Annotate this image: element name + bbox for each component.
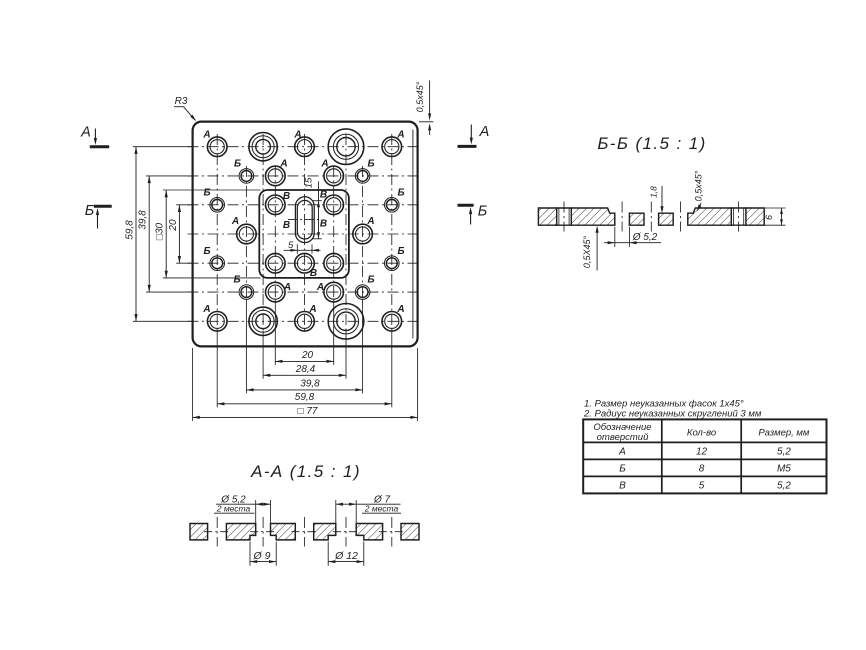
section А-А hole centerline x=217.2 bbox=[216, 517, 218, 547]
hole Б5 М5 bbox=[210, 256, 225, 271]
svg-text:0,5x45°: 0,5x45° bbox=[415, 81, 425, 112]
section Б-Б hole centerline x=738.6 bbox=[738, 202, 740, 232]
dimension Ф12 (А-А) bbox=[327, 542, 329, 566]
centerline column x=391.8 bbox=[391, 134, 393, 331]
svg-text:28,4: 28,4 bbox=[295, 364, 316, 375]
svg-text:А: А bbox=[308, 304, 316, 315]
hole Б2 М5 bbox=[355, 169, 370, 184]
svg-text:20: 20 bbox=[301, 350, 314, 361]
counterbored hole Ф7/Ф12 #2 bbox=[328, 304, 364, 340]
extension line plate right corner bbox=[417, 348, 419, 421]
svg-text:отверстий: отверстий bbox=[597, 432, 649, 443]
section Б-Б material chunk 1 bbox=[538, 208, 556, 225]
section А-А material chunk 1 bbox=[190, 524, 208, 540]
dimension Ф5,2 (Б-Б) bbox=[614, 227, 616, 247]
svg-text:Б: Б bbox=[203, 246, 210, 257]
svg-text:20: 20 bbox=[168, 219, 179, 232]
dimension 28,4 bottom bbox=[263, 374, 346, 376]
dimension квадрат 77 bottom bbox=[193, 416, 418, 418]
centerline row y=263.2 bbox=[188, 262, 422, 264]
leader 0,5X45&#176; bottom (Б-Б) bbox=[596, 228, 598, 270]
counterbored hole Ф5,2/Ф9 #2 bbox=[249, 307, 277, 335]
leader R3 corner radius bbox=[174, 106, 184, 108]
svg-text:1,8: 1,8 bbox=[649, 186, 659, 198]
section А-А material chunk 3 bbox=[271, 524, 296, 540]
section А-А material chunk 6 bbox=[401, 524, 419, 540]
svg-text:А-А (1.5 : 1): А-А (1.5 : 1) bbox=[250, 462, 361, 481]
section Б-Б hole centerline x=651.3 bbox=[650, 202, 652, 232]
svg-text:Б: Б bbox=[397, 188, 404, 199]
svg-text:Б: Б bbox=[234, 159, 241, 170]
dimension 39,8 bottom bbox=[246, 389, 362, 391]
centerline row y=321.3 bbox=[188, 320, 422, 322]
dimension Ф5,2 2 места (А-А) bbox=[255, 500, 257, 524]
hole Б1 М5 bbox=[239, 169, 254, 184]
svg-text:5: 5 bbox=[288, 240, 294, 251]
centerline row y=146.7 bbox=[188, 146, 422, 148]
svg-text:А: А bbox=[279, 159, 287, 170]
svg-text:59,8: 59,8 bbox=[125, 220, 136, 240]
svg-text:А: А bbox=[320, 159, 328, 170]
svg-text:В: В bbox=[283, 220, 290, 231]
dimension 20 bottom bbox=[275, 360, 333, 362]
svg-text:А: А bbox=[396, 130, 404, 141]
section А-А hole centerline x=391.8 bbox=[391, 517, 393, 547]
leader 0,5x45&#176; top (Б-Б) bbox=[698, 203, 701, 210]
section А-А material chunk 4 bbox=[314, 524, 336, 540]
svg-text:А: А bbox=[202, 130, 210, 141]
centerline column x=304.5 bbox=[304, 134, 306, 332]
section А-А hole centerline x=263.1 bbox=[262, 517, 264, 547]
dimension 15 slot length bbox=[313, 200, 322, 202]
hole В2 Ф5,2 bbox=[324, 195, 344, 215]
hole А3 Ф5,2 bbox=[382, 137, 402, 157]
section А-А hole centerline x=304.5 bbox=[304, 517, 306, 547]
svg-text:R3: R3 bbox=[175, 96, 188, 107]
svg-text:0,5x45°: 0,5x45° bbox=[694, 170, 704, 201]
section mark Б left bbox=[94, 205, 112, 208]
svg-text:2 места: 2 места bbox=[216, 503, 251, 513]
dimension квадрат 30 left bbox=[165, 190, 167, 278]
centerline column x=246.4 bbox=[245, 166, 247, 299]
svg-text:Размер, мм: Размер, мм bbox=[758, 428, 810, 439]
centerline column x=333.7 bbox=[333, 166, 335, 299]
dimension 39,8 left bbox=[148, 176, 150, 292]
svg-text:Б: Б bbox=[367, 159, 374, 170]
centerline column x=346.0 bbox=[345, 134, 347, 331]
section А-А hole centerline x=346.0 bbox=[345, 517, 347, 547]
hole Б6 М5 bbox=[385, 256, 400, 271]
dimension 5 slot width bbox=[296, 244, 298, 254]
hole А1 Ф5,2 bbox=[207, 137, 227, 157]
svg-text:5: 5 bbox=[699, 481, 705, 492]
svg-text:Б: Б bbox=[397, 246, 404, 257]
svg-text:А: А bbox=[366, 216, 374, 227]
hole Б7 М5 bbox=[239, 285, 254, 300]
svg-text:2 места: 2 места bbox=[364, 503, 399, 513]
slot 5x15 outer outline bbox=[295, 197, 314, 243]
svg-text:39,8: 39,8 bbox=[300, 378, 320, 389]
svg-text:39,8: 39,8 bbox=[138, 210, 149, 230]
svg-text:В: В bbox=[320, 219, 327, 230]
svg-text:В: В bbox=[320, 190, 327, 201]
hole А7 Ф5,2 bbox=[353, 224, 373, 244]
svg-text:12: 12 bbox=[696, 447, 708, 458]
svg-text:Ø 9: Ø 9 bbox=[253, 550, 271, 562]
svg-text:В: В bbox=[283, 191, 290, 202]
section mark А right bbox=[458, 145, 477, 148]
svg-text:А: А bbox=[396, 304, 404, 315]
extension line plate left corner bbox=[192, 348, 194, 421]
centerline row y=234.0 bbox=[188, 233, 422, 235]
svg-text:Ø 5,2: Ø 5,2 bbox=[632, 232, 658, 243]
svg-text:0,5X45°: 0,5X45° bbox=[582, 236, 592, 269]
svg-text:6: 6 bbox=[764, 215, 774, 220]
svg-text:8: 8 bbox=[699, 464, 705, 475]
svg-text:А: А bbox=[283, 282, 291, 293]
dimension 59,8 left bbox=[135, 147, 137, 322]
chamfer edge line right bbox=[412, 130, 414, 339]
section А-А material chunk 5 bbox=[356, 524, 382, 540]
svg-text:□30: □30 bbox=[155, 222, 166, 240]
thread lines Б hole left (М5) bbox=[558, 208, 560, 225]
hole А6 Ф5,2 bbox=[237, 224, 257, 244]
svg-text:Б: Б bbox=[203, 188, 210, 199]
section Б-Б material chunk 5 bbox=[688, 208, 732, 225]
svg-text:М5: М5 bbox=[777, 464, 791, 475]
hole В3 Ф5,2 bbox=[266, 253, 286, 273]
hole А8 Ф5,2 bbox=[266, 282, 286, 302]
svg-text:Кол-во: Кол-во bbox=[687, 428, 716, 439]
svg-text:В: В bbox=[310, 268, 317, 279]
svg-text:В: В bbox=[619, 481, 626, 492]
centerline column x=217.2 bbox=[216, 134, 218, 331]
dimension 6 thickness (Б-Б) bbox=[765, 207, 786, 209]
dimension Ф9 (А-А) bbox=[249, 542, 251, 566]
extension line pocket top edge bbox=[163, 189, 261, 191]
hole А2 Ф5,2 bbox=[295, 137, 315, 157]
section Б-Б material chunk 6 bbox=[746, 208, 764, 225]
svg-text:Б: Б bbox=[233, 275, 240, 286]
svg-text:Б: Б bbox=[478, 204, 487, 220]
centerline column x=362.6 bbox=[362, 166, 364, 299]
centerline row y=204.8 bbox=[188, 204, 422, 206]
svg-text:2. Радиус неуказанных скруглен: 2. Радиус неуказанных скруглений 3 мм bbox=[583, 409, 762, 420]
hole А4 Ф5,2 bbox=[266, 166, 286, 186]
svg-text:5,2: 5,2 bbox=[777, 447, 791, 458]
svg-text:А: А bbox=[202, 304, 210, 315]
svg-text:Б: Б bbox=[367, 275, 374, 286]
counterbored hole Ф5,2/Ф9 #1 bbox=[249, 133, 277, 161]
hole А12 Ф5,2 bbox=[382, 312, 402, 332]
hole Б4 М5 bbox=[385, 198, 400, 213]
slot horizontal centerline bbox=[288, 218, 322, 220]
extension line pocket bottom edge bbox=[163, 277, 261, 279]
svg-text:Б: Б bbox=[85, 203, 94, 219]
centerline column x=263.1 bbox=[262, 134, 264, 331]
section Б-Б hole centerline x=622.1 bbox=[621, 202, 623, 232]
hole В5 Ф5,2 bbox=[295, 253, 315, 273]
svg-text:А: А bbox=[479, 124, 490, 140]
hole Б8 М5 bbox=[355, 285, 370, 300]
svg-text:Б-Б (1.5 : 1): Б-Б (1.5 : 1) bbox=[597, 134, 706, 153]
svg-text:А: А bbox=[293, 130, 301, 141]
central pocket square 30x30 bbox=[259, 190, 349, 278]
svg-text:59,8: 59,8 bbox=[295, 392, 315, 403]
hole А5 Ф5,2 bbox=[324, 166, 344, 186]
hole В1 Ф5,2 bbox=[266, 195, 286, 215]
svg-text:А: А bbox=[618, 447, 626, 458]
section Б-Б material chunk 3 bbox=[629, 213, 644, 225]
svg-text:5,2: 5,2 bbox=[777, 481, 791, 492]
dimension Ф7 2 места (А-А) bbox=[335, 500, 337, 524]
svg-text:Б: Б bbox=[619, 464, 626, 475]
svg-text:А: А bbox=[316, 282, 324, 293]
section А-А material chunk 2 bbox=[226, 524, 255, 540]
hole А9 Ф5,2 bbox=[324, 282, 344, 302]
section mark Б right bbox=[458, 204, 474, 207]
counterbored hole Ф7/Ф12 #1 bbox=[328, 129, 364, 165]
dimension 1,8 recess depth (Б-Б) bbox=[661, 186, 663, 211]
section Б-Б hole centerline x=680.5 bbox=[680, 202, 682, 232]
dimension 0,5x45&#176; chamfer top right bbox=[419, 121, 433, 123]
table frame bbox=[583, 419, 826, 493]
section mark А left bbox=[90, 145, 109, 148]
thread lines Б hole right (М5) bbox=[733, 208, 735, 225]
section Б-Б hole centerline x=564.0 bbox=[563, 202, 565, 232]
slot 5x15 inner outline bbox=[297, 200, 312, 239]
svg-text:15: 15 bbox=[304, 177, 315, 188]
dimension 20 left bbox=[178, 205, 180, 263]
centerline row y=292.1 bbox=[188, 291, 422, 293]
dimension 59,8 bottom bbox=[217, 403, 392, 405]
svg-text:А: А bbox=[80, 125, 91, 141]
centerline column x=275.3 bbox=[274, 166, 276, 299]
section Б-Б material chunk 4 bbox=[659, 213, 674, 225]
plate outline 77x77 R3 bbox=[193, 122, 418, 347]
hole А11 Ф5,2 bbox=[295, 312, 315, 332]
hole В4 Ф5,2 bbox=[324, 253, 344, 273]
centerline row y=175.9 bbox=[188, 175, 422, 177]
svg-text:А: А bbox=[231, 216, 239, 227]
section Б-Б material chunk 2 bbox=[571, 208, 615, 225]
svg-text:Ø 12: Ø 12 bbox=[334, 550, 358, 562]
hole А10 Ф5,2 bbox=[207, 312, 227, 332]
svg-text:□ 77: □ 77 bbox=[298, 406, 318, 417]
hole Б3 М5 bbox=[210, 198, 225, 213]
thread hole edges continuous (М5 left) bbox=[556, 207, 572, 209]
